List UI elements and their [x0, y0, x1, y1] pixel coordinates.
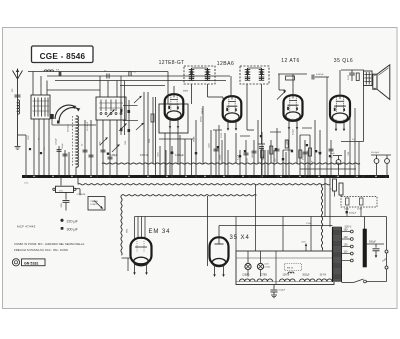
svg-text:12TE8-GT: 12TE8-GT	[159, 60, 185, 66]
svg-text:CGE - 8546: CGE - 8546	[40, 52, 86, 61]
svg-text:6BN6: 6BN6	[183, 91, 189, 93]
svg-text:V.C.: V.C.	[352, 139, 356, 141]
svg-text:1MΩ: 1MΩ	[252, 153, 254, 158]
svg-text:4700 Ω: 4700 Ω	[140, 154, 148, 157]
svg-text:300 μF: 300 μF	[67, 227, 79, 231]
svg-text:140: 140	[344, 236, 349, 239]
svg-text:120μF: 120μF	[62, 143, 64, 149]
svg-text:R.F.: R.F.	[56, 70, 60, 72]
svg-text:2,2kΩ: 2,2kΩ	[306, 223, 312, 225]
svg-text:100Ω: 100Ω	[158, 152, 160, 157]
svg-text:MCF 47/443: MCF 47/443	[17, 224, 36, 228]
svg-text:125: 125	[344, 244, 349, 247]
svg-text:12 AT6: 12 AT6	[281, 58, 299, 64]
svg-text:35 QL6: 35 QL6	[334, 58, 353, 64]
svg-text:12BA6: 12BA6	[217, 61, 235, 67]
svg-text:35 X4: 35 X4	[230, 235, 250, 241]
svg-text:0.004: 0.004	[221, 132, 223, 138]
svg-text:35 X4: 35 X4	[320, 274, 327, 277]
svg-text:EM 34: EM 34	[149, 229, 171, 235]
svg-text:1k: 1k	[331, 188, 333, 190]
svg-text:270Ω: 270Ω	[357, 209, 362, 211]
svg-text:2 PRESE: 2 PRESE	[77, 194, 86, 196]
svg-text:12BA6: 12BA6	[242, 274, 250, 277]
svg-text:5000: 5000	[61, 203, 63, 207]
svg-text:1500: 1500	[125, 141, 127, 145]
svg-text:100μF: 100μF	[220, 154, 222, 160]
svg-text:GN 5182: GN 5182	[24, 262, 38, 266]
svg-text:220kΩ: 220kΩ	[201, 116, 203, 122]
svg-text:6,3V: 6,3V	[302, 242, 307, 244]
svg-text:120Ω: 120Ω	[209, 143, 211, 148]
svg-text:110: 110	[344, 251, 348, 254]
svg-text:50μF: 50μF	[330, 153, 335, 155]
svg-text:1kΩ: 1kΩ	[275, 158, 277, 162]
svg-text:6,3V: 6,3V	[265, 264, 270, 266]
svg-text:6000μF: 6000μF	[349, 213, 357, 215]
svg-text:12TE8: 12TE8	[260, 274, 268, 277]
svg-text:FRECCIA SI PASSA SU OC2 - OM -: FRECCIA SI PASSA SU OC2 - OM - FONO	[14, 248, 69, 252]
svg-text:50+50μF: 50+50μF	[371, 152, 380, 154]
svg-text:0,25A: 0,25A	[265, 265, 271, 268]
svg-text:35QL6: 35QL6	[302, 274, 310, 277]
svg-text:2x330μF: 2x330μF	[68, 123, 70, 132]
svg-text:0.01μF: 0.01μF	[293, 128, 295, 135]
svg-text:COMM. IN POSIZ. MO - GIRANDO N: COMM. IN POSIZ. MO - GIRANDO NEL SENSO D…	[14, 242, 84, 246]
svg-text:0.005: 0.005	[348, 74, 350, 80]
svg-text:0.047μF: 0.047μF	[316, 74, 324, 76]
svg-text:12,5-25μF: 12,5-25μF	[87, 121, 89, 131]
svg-text:TRAP.: TRAP.	[193, 136, 196, 142]
svg-text:12AT6: 12AT6	[282, 274, 290, 277]
svg-text:500μF: 500μF	[369, 240, 376, 243]
svg-text:220kΩ: 220kΩ	[201, 108, 203, 115]
svg-text:2500: 2500	[149, 139, 151, 143]
svg-text:1x30μF: 1x30μF	[56, 138, 58, 145]
svg-text:220 μF: 220 μF	[67, 219, 79, 223]
svg-text:160: 160	[344, 229, 349, 232]
svg-text:FONO: FONO	[91, 204, 98, 206]
svg-text:10MΩ: 10MΩ	[287, 139, 289, 145]
svg-text:5kΩ: 5kΩ	[347, 152, 349, 156]
svg-text:0.02μF: 0.02μF	[279, 290, 286, 292]
svg-text:EM 34: EM 34	[287, 268, 294, 270]
svg-text:0.005μF: 0.005μF	[175, 154, 184, 157]
svg-text:470kΩ: 470kΩ	[302, 154, 304, 160]
svg-text:47kΩ: 47kΩ	[263, 155, 265, 160]
svg-text:0.05μF: 0.05μF	[110, 154, 118, 157]
